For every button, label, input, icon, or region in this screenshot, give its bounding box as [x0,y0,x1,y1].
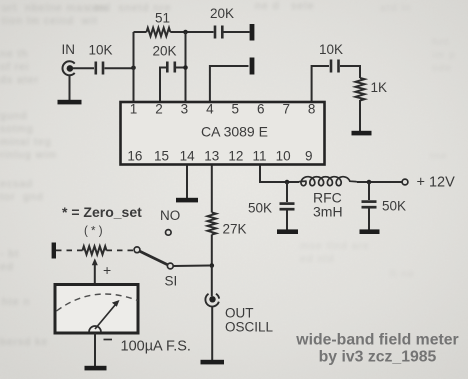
capacitor 20K (pins 2-3) [167,62,175,73]
svg-text:1K: 1K [371,80,388,95]
svg-text:50K: 50K [382,199,406,214]
resistor 51 [147,28,171,36]
svg-text:51: 51 [155,11,170,26]
pin numbers bottom [127,149,312,164]
ground (rotated) [250,58,255,75]
capacitor 50K (left) [286,182,288,202]
IC U1 CA3089E body [121,102,325,165]
svg-text:10K: 10K [89,43,113,58]
potentiometer wiper arrow [94,264,96,284]
svg-text:3: 3 [181,102,189,117]
svg-text:5: 5 [232,102,240,117]
wire [211,266,213,297]
svg-text:+: + [103,262,111,278]
svg-text:14: 14 [180,149,196,164]
svg-text:50K: 50K [248,201,272,216]
ground [352,131,372,136]
ground (rotated) [250,24,255,41]
ground [277,229,298,234]
wire [211,306,213,360]
svg-text:6: 6 [257,102,265,117]
wire pin 3 [185,32,187,101]
node pin 3 lead [183,65,188,70]
svg-text:10K: 10K [319,42,343,57]
meter M body [55,285,138,334]
svg-text:16: 16 [127,149,142,164]
wire [224,31,250,33]
ground [176,198,198,203]
svg-text:20K: 20K [153,44,177,59]
ground [360,229,380,234]
contact (zero-set side) [134,247,140,253]
pin numbers top [130,102,316,117]
ground [85,366,107,371]
svg-text:( * ): ( * ) [84,226,103,238]
wire (dashed) [107,249,134,251]
svg-text:11: 11 [252,149,266,164]
capacitor 50K (right) [368,182,370,200]
minus sign [104,339,113,341]
capacitor 10K (input) [96,62,103,75]
node [285,180,290,185]
node (switch junction) [210,263,215,268]
svg-text:2: 2 [155,102,163,117]
meter needle [95,305,116,330]
wire [359,100,361,131]
terminal (zero-set end) [52,243,56,259]
svg-text:100µA F.S.: 100µA F.S. [121,339,191,355]
svg-text:OSCILL: OSCILL [225,320,274,335]
svg-text:NO: NO [160,208,180,223]
svg-text:20K: 20K [210,6,234,21]
ground [201,360,225,365]
potentiometer zero-set [83,246,107,254]
wire [340,66,360,78]
svg-text:7: 7 [282,102,290,117]
svg-text:wide-band field meter: wide-band field meter [295,332,458,349]
svg-text:8: 8 [308,102,316,117]
svg-text:SI: SI [165,274,178,289]
svg-text:12: 12 [228,149,243,164]
wire pin 2 [160,68,166,102]
wire (dashed zero-set) [56,249,83,251]
wire [105,67,134,69]
svg-text:* = Zero_set: * = Zero_set [62,204,142,220]
node above pin 3 [183,30,188,35]
wire [211,235,213,266]
svg-text:27K: 27K [223,222,247,237]
wire [134,31,147,33]
wire [357,181,402,183]
svg-text:15: 15 [154,149,169,164]
wire meter minus [94,333,96,366]
wire [69,75,71,100]
wire [173,265,210,268]
capacitor 10K (pin 8) [331,60,339,73]
svg-text:OUT: OUT [225,306,254,321]
inductor RFC 3mH [299,177,357,186]
switch SI pivot [167,263,173,269]
ground [58,100,82,105]
svg-text:10: 10 [276,149,291,164]
svg-text:CA 3089 E: CA 3089 E [201,124,268,140]
svg-text:4: 4 [206,102,214,117]
wire pin 1 [133,68,135,101]
wire pin 14 [186,166,188,199]
terminal +12V [402,179,408,185]
wire pin 8 [312,66,329,101]
node (pin1 junction) [131,66,136,71]
resistor 1K [356,78,365,101]
meter scale arc [57,294,138,311]
svg-text:9: 9 [305,149,313,164]
wire [170,31,213,33]
capacitor 20K (top) [215,26,222,39]
jack OUT OSCILL [205,294,219,307]
wire [133,32,135,68]
svg-text:by iv3 zcz_1985: by iv3 zcz_1985 [319,349,437,366]
contact NO [166,230,172,236]
meter pivot [89,326,101,332]
svg-text:+ 12V: + 12V [417,175,456,191]
resistor 27K [208,213,216,235]
switch SI lever [140,251,168,264]
wire pin 11 to +12V rail [260,166,299,183]
wire pin 13 [211,166,213,213]
wire pin 4 [210,66,249,101]
svg-text:1: 1 [130,102,138,117]
svg-text:3mH: 3mH [313,204,343,220]
node [367,180,372,185]
input jack IN [62,61,74,75]
wire [176,67,186,69]
svg-text:IN: IN [62,42,76,57]
wire [73,67,95,69]
svg-text:13: 13 [204,149,219,164]
